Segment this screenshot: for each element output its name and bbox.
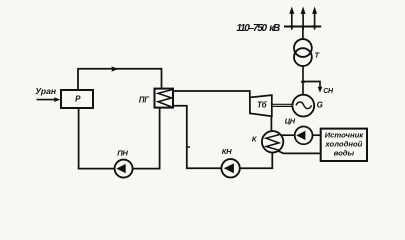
svg-text:КН: КН [222, 147, 232, 156]
wire transformer to generator [302, 66, 304, 95]
svg-text:ПГ: ПГ [139, 95, 150, 104]
steam line ПГ to turbine [173, 91, 250, 98]
turbine shaft (double line) [272, 104, 293, 106]
svg-text:110–750 кВ: 110–750 кВ [236, 23, 280, 34]
outgoing line arrow 2 [301, 7, 306, 30]
outgoing line arrow 1 [289, 7, 294, 30]
label Источник холодной воды [324, 131, 364, 158]
exhaust wire turbine to condenser [270, 116, 272, 131]
primary loop cold leg wire [79, 108, 160, 169]
svg-text:холодной: холодной [324, 140, 362, 149]
svg-text:Уран: Уран [35, 86, 57, 96]
feed pump ПН [115, 160, 133, 178]
svg-text:СН: СН [323, 88, 334, 95]
svg-text:ПН: ПН [117, 149, 128, 158]
turbine Тб [250, 95, 272, 116]
outgoing line arrow 3 [312, 7, 317, 30]
svg-text:ЦН: ЦН [285, 117, 296, 126]
cold water source box [321, 129, 367, 161]
svg-text:Тб: Тб [257, 101, 268, 110]
primary loop hot leg wire [78, 69, 162, 90]
svg-text:Источник: Источник [325, 131, 365, 140]
circulation pump ЦН [295, 126, 313, 144]
flow arrow [111, 66, 118, 71]
svg-text:Т: Т [315, 50, 320, 59]
generator G [292, 95, 314, 117]
auxiliary feed arrow СН [303, 82, 322, 93]
condensate wire К to КН to ПГ [173, 106, 272, 169]
tick on feedwater wire [187, 146, 190, 147]
condensate pump КН [221, 159, 239, 177]
bus bar [284, 26, 321, 28]
svg-text:Р: Р [75, 95, 81, 104]
warm water return line К to source [277, 150, 322, 153]
condenser К [262, 131, 283, 152]
cooling line К to ЦН [280, 134, 295, 136]
cooling line ЦН to source [312, 134, 321, 136]
svg-text:G: G [317, 101, 323, 110]
uranium feed arrow [37, 97, 61, 102]
wire bus to transformer [302, 27, 304, 40]
steam generator ПГ [155, 89, 174, 108]
svg-text:воды: воды [334, 148, 355, 157]
transformer Т [294, 39, 312, 66]
node auxiliary tap [301, 81, 305, 83]
reactor Р [61, 90, 93, 108]
